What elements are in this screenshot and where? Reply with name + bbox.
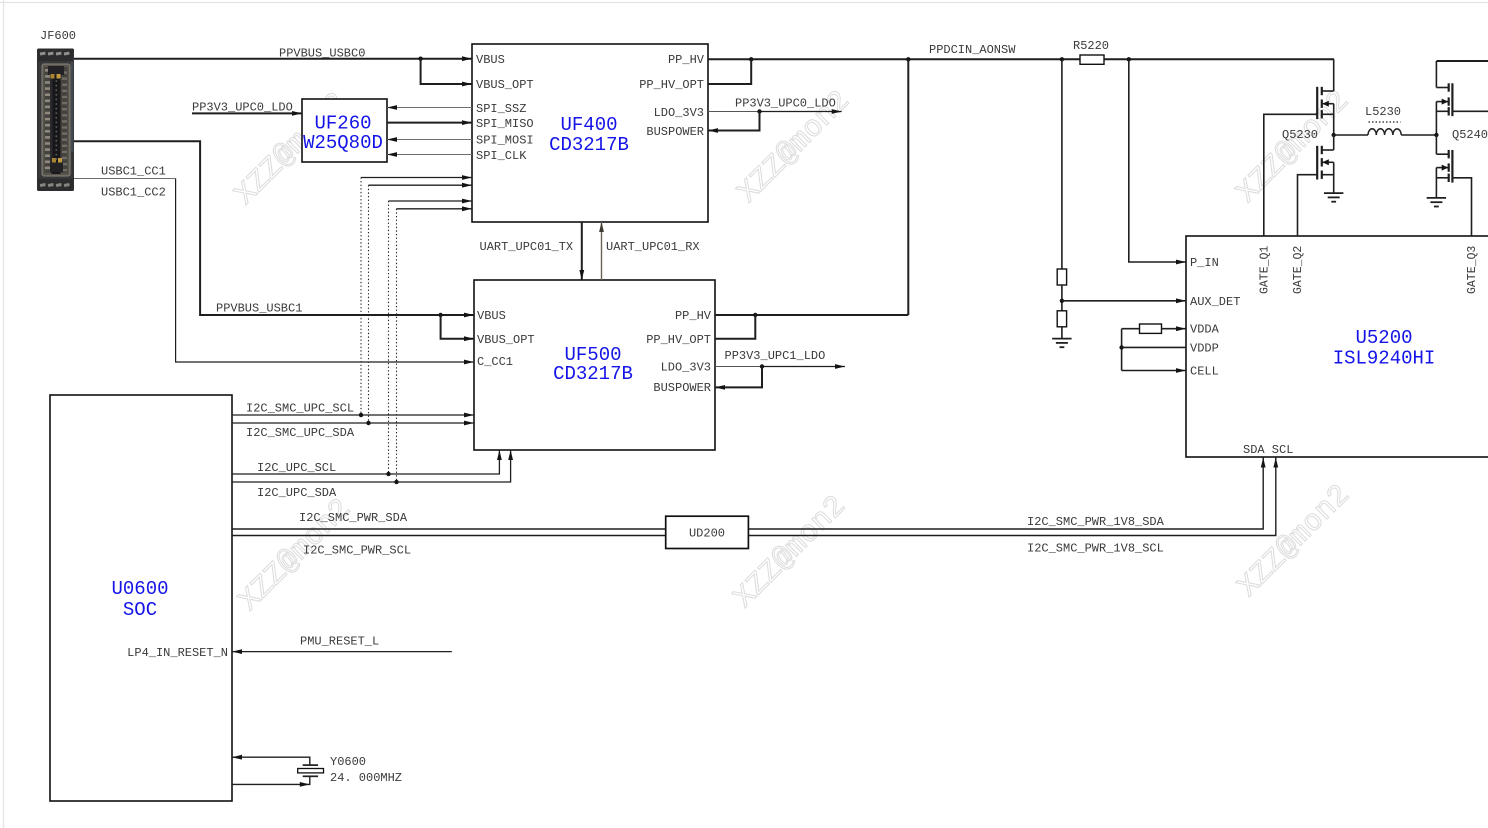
svg-text:VDDA: VDDA — [1190, 323, 1220, 337]
svg-text:W25Q80D: W25Q80D — [303, 132, 383, 154]
svg-text:P_IN: P_IN — [1190, 256, 1219, 270]
svg-text:SDA SCL: SDA SCL — [1243, 443, 1293, 457]
svg-text:Q5230: Q5230 — [1282, 128, 1318, 142]
svg-text:CD3217B: CD3217B — [549, 134, 629, 156]
svg-text:PPVBUS_USBC1: PPVBUS_USBC1 — [216, 301, 302, 315]
svg-text:PP3V3_UPC0_LDO: PP3V3_UPC0_LDO — [192, 101, 293, 115]
svg-text:UART_UPC01_TX: UART_UPC01_TX — [480, 240, 574, 254]
svg-text:ISL9240HI: ISL9240HI — [1333, 347, 1436, 369]
svg-text:LDO_3V3: LDO_3V3 — [661, 361, 711, 375]
svg-text:I2C_SMC_PWR_1V8_SCL: I2C_SMC_PWR_1V8_SCL — [1027, 542, 1164, 556]
svg-text:JF600: JF600 — [40, 29, 76, 43]
svg-text:CD3217B: CD3217B — [553, 363, 633, 385]
svg-text:C_CC1: C_CC1 — [477, 355, 513, 369]
svg-text:GATE_Q1: GATE_Q1 — [1259, 246, 1272, 294]
svg-text:VDDP: VDDP — [1190, 341, 1219, 355]
svg-text:AUX_DET: AUX_DET — [1190, 295, 1240, 309]
svg-text:LDO_3V3: LDO_3V3 — [654, 106, 704, 120]
svg-text:BUSPOWER: BUSPOWER — [653, 381, 711, 395]
svg-text:PP3V3_UPC0_LDO: PP3V3_UPC0_LDO — [735, 96, 836, 110]
svg-text:PP_HV: PP_HV — [668, 53, 705, 67]
svg-text:GATE_Q3: GATE_Q3 — [1466, 246, 1479, 294]
svg-text:L5230: L5230 — [1365, 105, 1401, 119]
svg-text:PP_HV_OPT: PP_HV_OPT — [646, 333, 711, 347]
svg-text:PP3V3_UPC1_LDO: PP3V3_UPC1_LDO — [725, 349, 826, 363]
svg-text:UF400: UF400 — [560, 114, 617, 136]
svg-text:U0600: U0600 — [111, 578, 168, 600]
svg-text:I2C_SMC_PWR_1V8_SDA: I2C_SMC_PWR_1V8_SDA — [1027, 515, 1165, 529]
svg-text:I2C_UPC_SCL: I2C_UPC_SCL — [257, 461, 336, 475]
svg-text:SPI_CLK: SPI_CLK — [476, 149, 527, 163]
svg-text:VBUS: VBUS — [477, 309, 506, 323]
svg-text:VBUS_OPT: VBUS_OPT — [477, 333, 535, 347]
svg-text:SPI_MISO: SPI_MISO — [476, 117, 534, 131]
svg-text:24. 000MHZ: 24. 000MHZ — [330, 771, 402, 785]
svg-text:USBC1_CC1: USBC1_CC1 — [101, 164, 166, 178]
svg-text:R5220: R5220 — [1073, 39, 1109, 53]
svg-text:PPVBUS_USBC0: PPVBUS_USBC0 — [279, 46, 365, 60]
svg-text:UD200: UD200 — [689, 527, 725, 541]
svg-text:U5200: U5200 — [1355, 327, 1412, 349]
svg-text:Q5240: Q5240 — [1452, 128, 1488, 142]
svg-text:SPI_MOSI: SPI_MOSI — [476, 134, 534, 148]
svg-text:USBC1_CC2: USBC1_CC2 — [101, 185, 166, 199]
svg-text:LP4_IN_RESET_N: LP4_IN_RESET_N — [127, 646, 228, 660]
svg-text:BUSPOWER: BUSPOWER — [646, 125, 704, 139]
svg-text:I2C_SMC_UPC_SDA: I2C_SMC_UPC_SDA — [246, 426, 355, 440]
svg-text:UART_UPC01_RX: UART_UPC01_RX — [606, 240, 700, 254]
svg-text:I2C_UPC_SDA: I2C_UPC_SDA — [257, 486, 337, 500]
svg-text:PP_HV_OPT: PP_HV_OPT — [639, 78, 704, 92]
svg-text:I2C_SMC_UPC_SCL: I2C_SMC_UPC_SCL — [246, 402, 354, 416]
svg-text:SPI_SSZ: SPI_SSZ — [476, 102, 526, 116]
svg-text:PP_HV: PP_HV — [675, 309, 712, 323]
svg-text:PPDCIN_AONSW: PPDCIN_AONSW — [929, 43, 1016, 57]
svg-text:Y0600: Y0600 — [330, 755, 366, 769]
svg-text:CELL: CELL — [1190, 365, 1219, 379]
svg-text:SOC: SOC — [123, 599, 157, 621]
svg-text:I2C_SMC_PWR_SDA: I2C_SMC_PWR_SDA — [299, 511, 408, 525]
svg-text:VBUS_OPT: VBUS_OPT — [476, 78, 534, 92]
svg-text:I2C_SMC_PWR_SCL: I2C_SMC_PWR_SCL — [303, 544, 411, 558]
svg-text:PMU_RESET_L: PMU_RESET_L — [300, 635, 379, 649]
svg-text:GATE_Q2: GATE_Q2 — [1292, 246, 1305, 294]
svg-text:VBUS: VBUS — [476, 53, 505, 67]
